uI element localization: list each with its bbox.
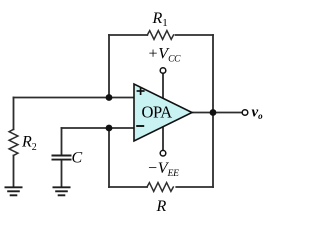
wire output bbox=[192, 112, 242, 114]
capacitor C plates bbox=[52, 156, 72, 160]
plus input marking bbox=[137, 87, 145, 95]
terminal +VCC bbox=[160, 68, 166, 74]
wire top-right segment from R1 bbox=[176, 34, 214, 36]
wire bottom-right segment from R bbox=[176, 186, 213, 188]
wire capacitor to ground bbox=[61, 160, 63, 187]
minus input marking bbox=[136, 125, 144, 127]
wire inverting node down to R bbox=[108, 128, 110, 187]
wire noninverting input bbox=[14, 97, 135, 99]
op-amp U1 bbox=[134, 84, 192, 141]
wire left vertical from top to noninverting node bbox=[108, 35, 110, 98]
svg-text:OPA: OPA bbox=[142, 103, 173, 122]
wire R2 to ground bbox=[13, 156, 15, 188]
wire bottom-left segment to R bbox=[109, 186, 147, 188]
wire capacitor branch top bbox=[61, 128, 63, 155]
wire +VCC supply bbox=[162, 74, 164, 105]
node B junction (inverting) bbox=[106, 125, 113, 132]
svg-text:R: R bbox=[156, 198, 167, 215]
ground (C) bbox=[53, 187, 71, 195]
terminal -VEE bbox=[160, 150, 166, 156]
node A junction (noninverting) bbox=[106, 94, 113, 101]
resistor R bbox=[147, 183, 173, 192]
wire inverting input bbox=[62, 127, 135, 129]
resistor R2 bbox=[9, 129, 18, 155]
wire -VEE supply bbox=[162, 120, 164, 150]
ground (R2) bbox=[5, 187, 23, 195]
wire top-left segment to R1 bbox=[109, 34, 147, 36]
resistor R1 bbox=[147, 31, 173, 40]
terminal vo bbox=[242, 110, 248, 116]
svg-text:C: C bbox=[72, 150, 83, 167]
node output junction bbox=[210, 109, 217, 116]
wire left rail down to R2 bbox=[13, 98, 15, 130]
wire right vertical rail bbox=[212, 35, 214, 187]
